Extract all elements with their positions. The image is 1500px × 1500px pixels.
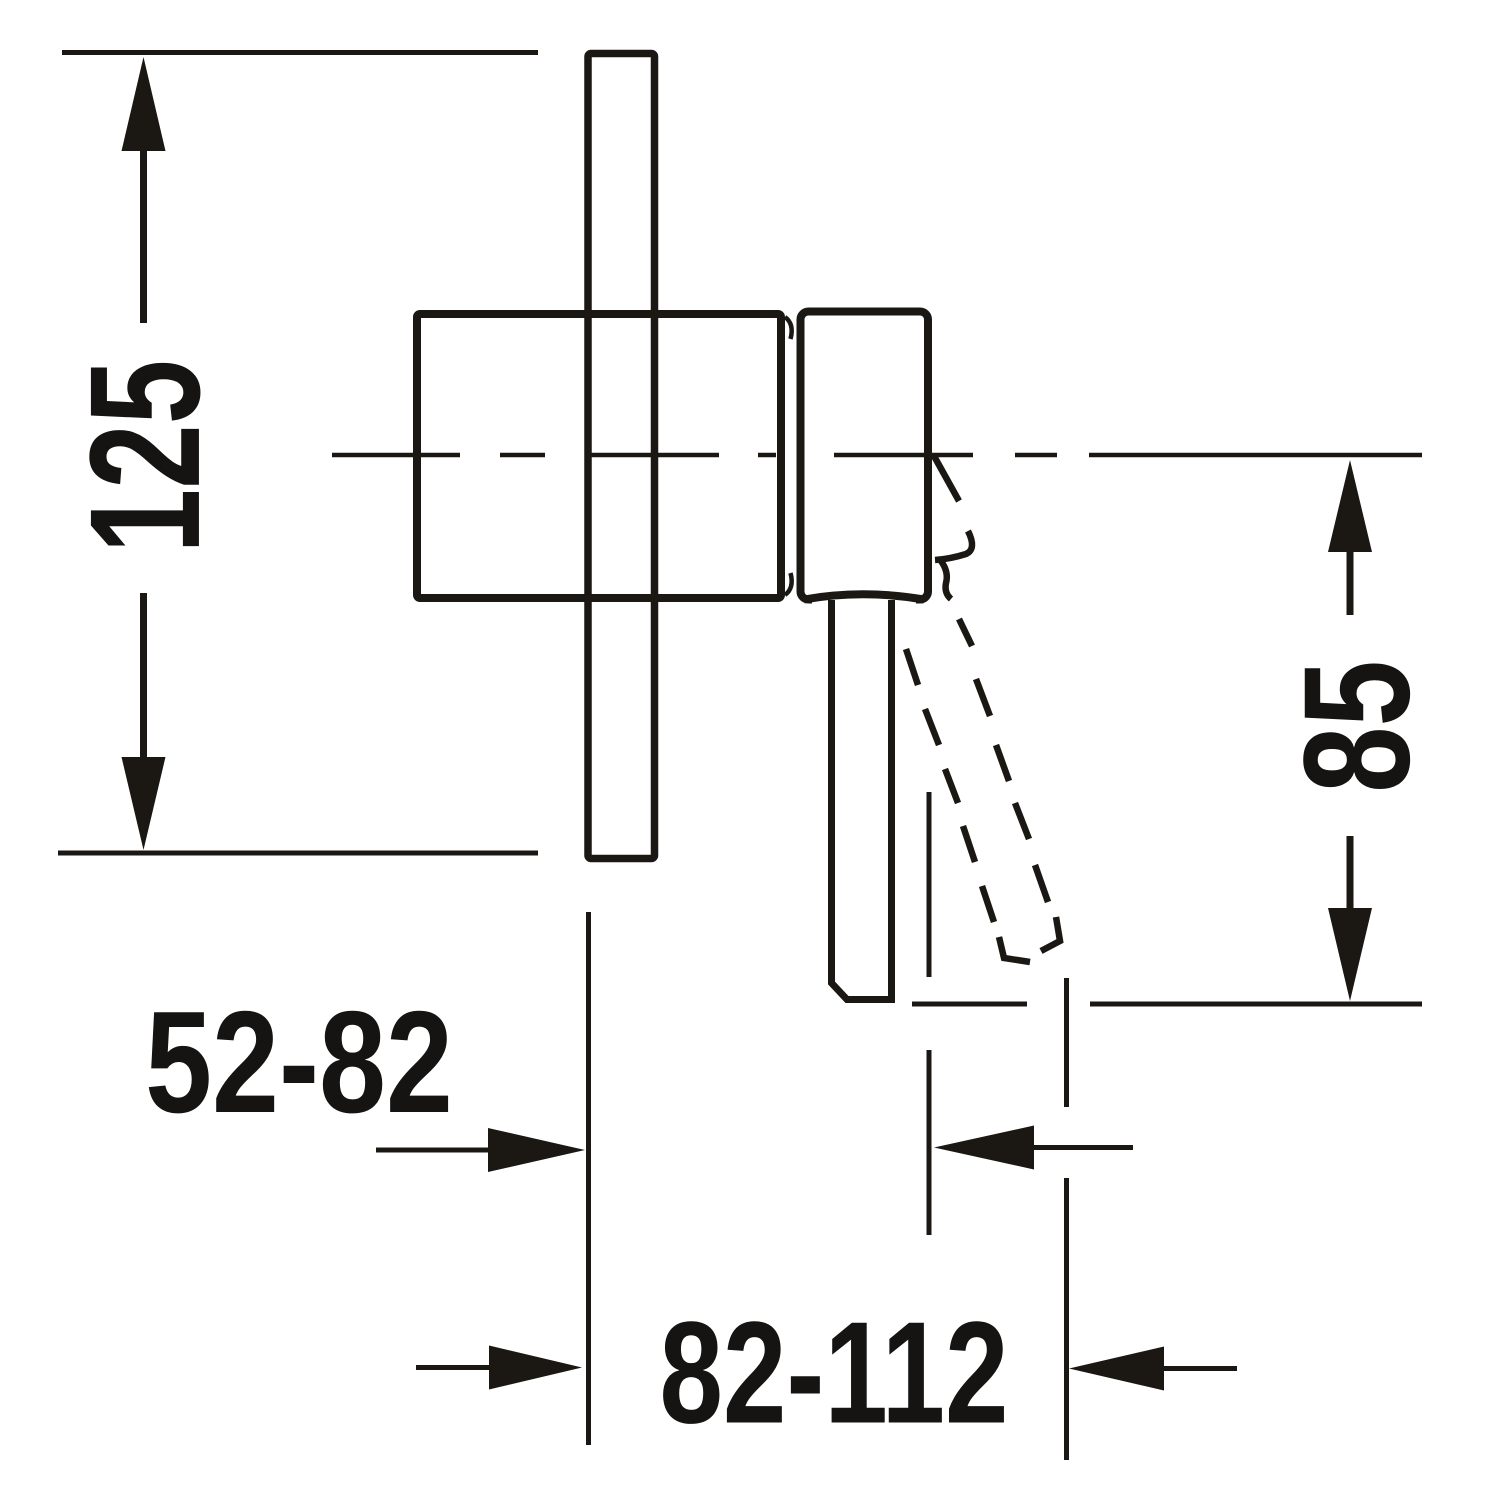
svg-text:52-82: 52-82 [145, 981, 453, 1143]
svg-text:85: 85 [1272, 660, 1441, 793]
svg-text:125: 125 [58, 360, 233, 554]
svg-text:82-112: 82-112 [659, 1291, 1008, 1453]
